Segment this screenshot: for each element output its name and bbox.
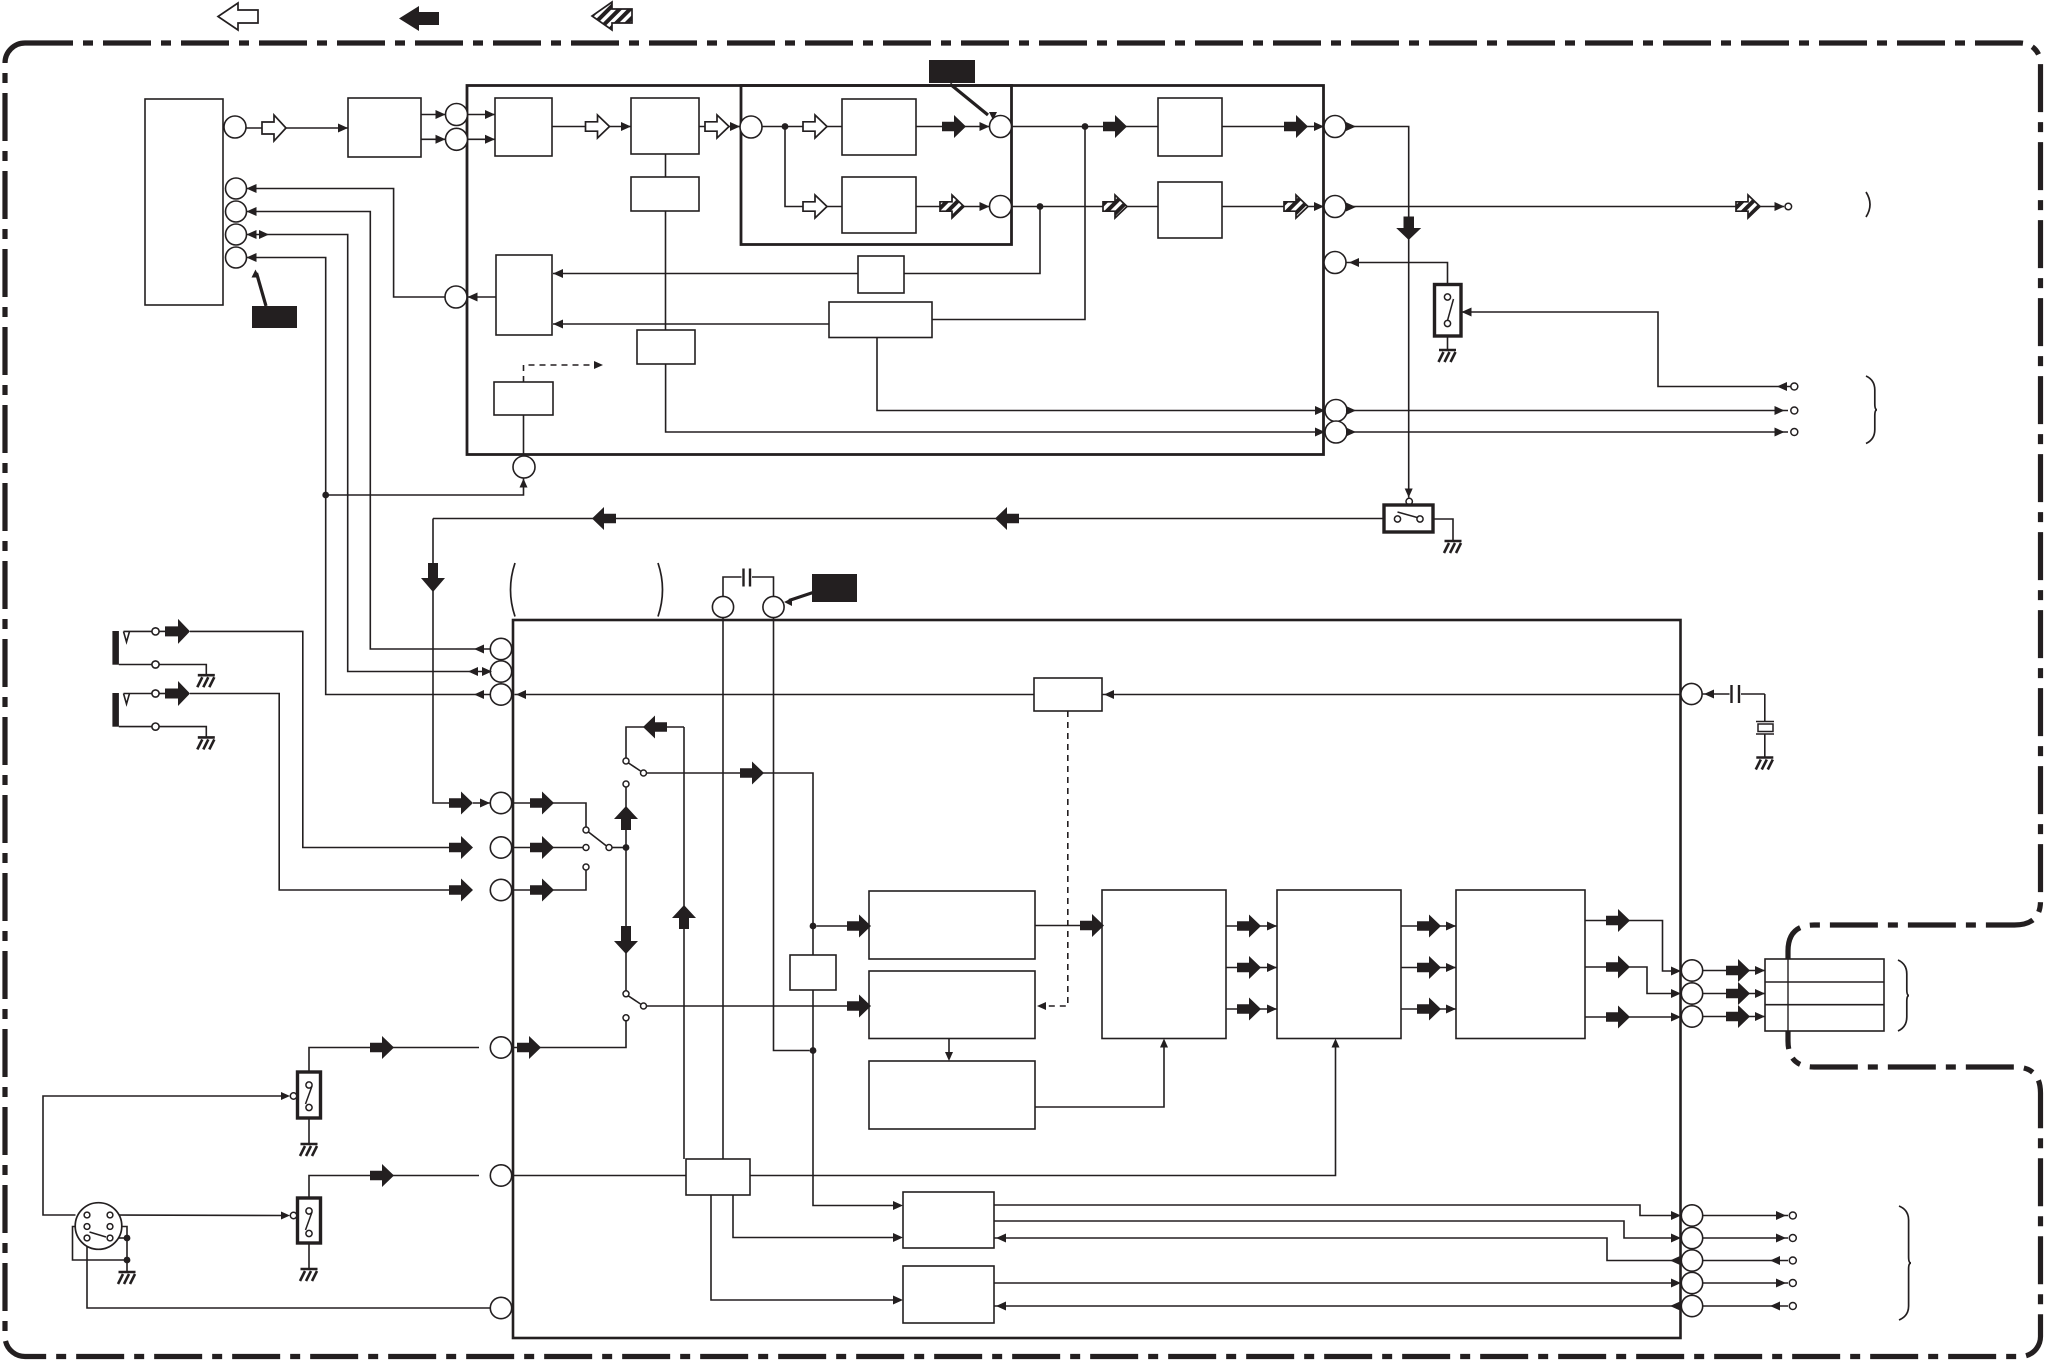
- solid arrow B22-B23 row 1009: [1237, 998, 1261, 1021]
- selector SW-C blade: [629, 763, 641, 771]
- B25 output row1 to Q1 terminal: [994, 1205, 1672, 1216]
- wire node 1040 down to meter driver B9 and monitor amp B11: [553, 207, 1040, 274]
- monitor bus vertical: [625, 787, 627, 991]
- wire B11 output to connector M: [468, 296, 497, 298]
- arrowhead into Q1: [1671, 1211, 1681, 1220]
- DIN blade: [90, 1232, 107, 1237]
- selector SW-E contact e: [583, 864, 589, 870]
- wire E1 into preamp block B2: [468, 114, 496, 116]
- block B2 amp: [495, 98, 552, 156]
- brace at speaker connector: [1898, 960, 1909, 1031]
- arrowhead after H1: [1346, 122, 1356, 131]
- black label NR pointer: [257, 273, 267, 306]
- solid arrow after J2: [530, 836, 554, 859]
- node dot row2 at 1040: [1037, 203, 1044, 210]
- arrowhead into J1: [480, 799, 490, 808]
- node dot row1 at 785: [782, 123, 789, 130]
- selector SW-D blade: [629, 996, 641, 1004]
- arrowhead into G: [980, 202, 990, 211]
- connector circle K1: [712, 596, 733, 617]
- solid arrow B23-B24 row 967.5: [1417, 956, 1441, 979]
- connector circle B1 row 234: [226, 224, 247, 245]
- wire rec-out branch from node 495 to connector I1: [326, 479, 524, 496]
- bracket at line-out terminal: [1866, 192, 1870, 217]
- SW-G input contact circle: [290, 1212, 296, 1218]
- switch SW-A record mute: [1435, 285, 1462, 337]
- wire B1 circle row 211 to L1: [247, 212, 491, 650]
- arrowhead speaker row1: [1755, 966, 1765, 975]
- B16 output row to B23 bottom: [750, 1044, 1336, 1176]
- speaker connector block 3 rows: [1765, 959, 1884, 1031]
- node dot monitor pole: [623, 844, 630, 851]
- arrowhead into SW-A: [1462, 308, 1472, 317]
- dashed arrowhead into B21a: [1037, 1002, 1046, 1010]
- outline arrow into B5: [803, 115, 827, 138]
- arrowhead on L1 wire: [474, 645, 484, 654]
- connector circle K2: [763, 596, 784, 617]
- arrowhead on T1 wire: [1777, 382, 1787, 391]
- wire B1 circle row 257 to L3: [247, 258, 491, 695]
- arrowhead into H2: [1314, 202, 1324, 211]
- B25 input row from Q3 terminal: [994, 1238, 1681, 1261]
- block B1 system control: [145, 99, 223, 305]
- DIN pin 4: [107, 1224, 113, 1230]
- arrowhead speaker row2: [1755, 989, 1765, 998]
- jack2 sleeve wire to ground: [159, 727, 206, 738]
- monitor feed vertical to B16: [683, 727, 685, 1159]
- block B4 filter: [631, 177, 699, 211]
- jack1 sleeve wire stub: [119, 664, 152, 666]
- big left arrow on muting bus west: [592, 507, 616, 530]
- block B3 amp: [631, 98, 699, 154]
- arrowhead into E2: [436, 135, 446, 144]
- jack2 wire to arrow: [159, 693, 165, 695]
- solid arrow row1 into B7: [1103, 115, 1127, 138]
- dashed arrowhead: [594, 361, 603, 369]
- arrowhead into B26 from B16: [893, 1296, 903, 1305]
- arrowhead into B24 row 926: [1446, 922, 1456, 931]
- arrowhead into E1: [436, 110, 446, 119]
- arrowhead into B2 bottom: [485, 135, 495, 144]
- big down arrow on mute riser: [1396, 217, 1421, 241]
- jack1 sleeve wire to ground: [159, 665, 206, 676]
- connector circle Q5: [1681, 1295, 1702, 1316]
- crystal resonator to ground: [1764, 694, 1766, 722]
- dashed control from B15 to B21a: [1046, 711, 1068, 1006]
- rows B22 to B23: [1226, 925, 1277, 927]
- arrowhead into H3: [1349, 258, 1359, 267]
- arrowhead into F: [980, 122, 990, 131]
- connector circle Q2: [1681, 1227, 1702, 1248]
- SW-C pole wire to record bus: [647, 773, 895, 1206]
- outline arrow into B6: [803, 195, 827, 218]
- solid arrow B24 out row3: [1606, 1006, 1630, 1029]
- jack1 sleeve terminal circle: [152, 661, 159, 668]
- arrowhead after H5: [1346, 428, 1356, 437]
- arrowhead into B15: [1104, 690, 1114, 699]
- connector circle B1 row 188: [226, 178, 247, 199]
- arrowhead up into B23: [1332, 1039, 1340, 1048]
- arrowhead terminal Q2: [1776, 1234, 1786, 1243]
- block B23 motor drive 2: [1277, 890, 1401, 1039]
- big down arrow on monitor bus: [614, 926, 638, 954]
- block B8 output amp 2: [1158, 182, 1222, 238]
- terminal circle T1: [1791, 383, 1798, 390]
- block B24 motor drive 3: [1456, 890, 1585, 1039]
- J1 row inside deck block: [513, 803, 586, 827]
- solid arrow before J1: [449, 792, 473, 815]
- inner sub container O2: [741, 86, 1012, 245]
- solid arrow P2 to speaker: [1726, 982, 1750, 1005]
- connector circle L2: [490, 661, 511, 682]
- jack2 tip terminal circle: [152, 690, 159, 697]
- headphone jack 2 body: [112, 693, 119, 727]
- K1 vertical into B16: [722, 618, 724, 1160]
- arrowhead into H5: [1315, 428, 1325, 437]
- node dot DIN pinBR: [124, 1235, 131, 1242]
- solid arrow on SW-C pole wire: [740, 762, 764, 785]
- wire Fin through O2 to B5: [762, 126, 842, 128]
- ground under crystal: [1756, 758, 1774, 770]
- connector circle Q1: [1681, 1205, 1702, 1226]
- node dot K2 join record bus: [810, 1047, 817, 1054]
- block B22 motor drive 1: [1102, 890, 1226, 1039]
- selector SW-D pole contact: [641, 1003, 647, 1009]
- switch SW-B muting relay: [1384, 505, 1433, 532]
- arrowhead into B1 row211: [247, 207, 257, 216]
- DIN pin MR wire to ground node: [113, 1227, 127, 1273]
- SW-F input wire from DIN pin1: [43, 1096, 287, 1215]
- arrowhead inside O3 on playback row: [516, 690, 526, 699]
- selector SW-E blade: [589, 832, 607, 846]
- arrowhead into P1: [1671, 967, 1681, 976]
- wire line-in block to connector E2: [421, 138, 446, 140]
- B24 output row3 to P3: [1585, 1016, 1672, 1018]
- connector circle P1: [1681, 960, 1702, 981]
- DIN pin 2: [107, 1212, 113, 1218]
- connector circle J6: [490, 1165, 511, 1186]
- SW-F input contact circle: [290, 1093, 296, 1099]
- legend hatched arrow (left): [592, 2, 632, 30]
- wire mute switch SW-B to ground leg: [1433, 519, 1453, 541]
- arrowhead up into I1: [520, 479, 528, 488]
- arrowhead line-out: [1775, 202, 1785, 211]
- connector circle F on O2 right: [990, 116, 1012, 138]
- arrowhead into B1 row188: [247, 184, 257, 193]
- connector circle E2: [446, 128, 468, 150]
- block B21b bias osc: [869, 1061, 1035, 1129]
- solid arrow B7 out: [1284, 115, 1308, 138]
- bidirectional arrowheads on L2 wire: [468, 667, 478, 676]
- arrowhead up into B22: [1160, 1039, 1168, 1048]
- connector circle I1 rec out: [513, 456, 535, 478]
- wire B10 to B11 second input: [553, 323, 829, 325]
- connector circle B1 row 257: [226, 247, 247, 268]
- selector SW-E pole contact: [606, 845, 612, 851]
- block B15 bias trap: [1034, 678, 1102, 711]
- B16 output to B26: [711, 1195, 895, 1300]
- black label OSC: [812, 574, 857, 602]
- solid arrow P3 to speaker: [1726, 1005, 1750, 1028]
- P3 to speaker connector: [1703, 1016, 1765, 1018]
- capacitor loop above K1 K2: [723, 577, 742, 597]
- connector circle P2: [1681, 983, 1702, 1004]
- black label REC pointer: [950, 84, 988, 115]
- B26 input row from Q5 terminal: [994, 1305, 1681, 1307]
- arrowhead down B21a to B21b: [945, 1052, 953, 1061]
- solid arrow B22-B23 row 967.5: [1237, 956, 1261, 979]
- block B2a input stage: [348, 98, 421, 157]
- arrowhead into N1: [1704, 690, 1714, 699]
- J3 row inside deck block: [513, 870, 586, 890]
- selector SW-E pole wire to monitor bus: [612, 847, 626, 849]
- black label REC: [929, 60, 975, 83]
- capacitor plates: [742, 569, 744, 587]
- solid arrow before J4: [370, 1036, 394, 1059]
- selector SW-E contact b: [583, 845, 589, 851]
- wire E2 into preamp block B2: [468, 138, 496, 140]
- arrowhead into B3: [621, 122, 631, 131]
- outline arrow B2 to B3: [586, 115, 610, 138]
- dashed control line from B13: [524, 365, 596, 382]
- solid arrow P1 to speaker: [1726, 959, 1750, 982]
- arrowhead into Q2: [1671, 1234, 1681, 1243]
- jack1 tip terminal circle: [152, 628, 159, 635]
- black label NR: [252, 306, 297, 328]
- solid arrow after J4: [517, 1036, 541, 1059]
- arrowhead into H4: [1315, 406, 1325, 415]
- DIN pin ML loop to ground node: [73, 1227, 125, 1261]
- long muting bus wire: [433, 518, 1384, 520]
- arrowhead into connector M: [468, 293, 478, 302]
- brace at rear terminals: [1866, 376, 1877, 444]
- solid arrow B5 out: [942, 115, 966, 138]
- connector circle H5: [1325, 421, 1347, 443]
- block B25 control interface: [903, 1192, 994, 1248]
- connector circle J3: [490, 879, 511, 900]
- P2 to speaker connector: [1703, 993, 1765, 995]
- jack1 tip contact: [124, 632, 130, 643]
- connector circle L3: [490, 684, 511, 705]
- arrowhead into H1: [1314, 122, 1324, 131]
- SW-B top contact circle: [1406, 498, 1412, 504]
- connector circle P3: [1681, 1006, 1702, 1027]
- selector SW-C upper contact: [623, 758, 629, 764]
- headphone jack 1 body: [112, 631, 119, 665]
- connector circle H2: [1324, 196, 1346, 218]
- node dot DIN ground: [124, 1257, 131, 1264]
- headphone jack2 wire to J3: [190, 694, 449, 891]
- node dot rec-out branch: [322, 492, 329, 499]
- P1 to speaker connector: [1703, 970, 1765, 972]
- connector circle H3: [1324, 252, 1346, 274]
- selector SW-C lower contact: [623, 781, 629, 787]
- wire F to H1 through B7: [1012, 126, 1325, 128]
- solid arrow B22-B23 row 926: [1237, 915, 1261, 938]
- terminal circle T3: [1791, 429, 1798, 436]
- connector circle on B1 top: [224, 116, 246, 138]
- big up arrow on monitor bus: [614, 806, 638, 830]
- SW-D pole wire into B21a: [647, 1005, 861, 1007]
- B26 output row to Q4 terminal: [994, 1282, 1672, 1284]
- outline arrow B3 to Fin: [705, 115, 729, 138]
- terminal circle Q4: [1789, 1280, 1796, 1287]
- block B26 servo interface: [903, 1266, 994, 1323]
- arrowhead into SW-F: [281, 1092, 290, 1100]
- arrowhead into P3: [1671, 1013, 1681, 1022]
- arrowhead terminal Q5: [1770, 1302, 1780, 1311]
- arrowhead into B24 row 1009: [1446, 1005, 1456, 1014]
- selector SW-D upper contact: [623, 991, 629, 997]
- SW-D lower contact riser to J4 row: [513, 1021, 626, 1048]
- wire G to H2 through B8: [1012, 206, 1325, 208]
- connector circle J2: [490, 837, 511, 858]
- record bus junction to B20: [817, 925, 848, 927]
- arrowhead into B23 row 926: [1267, 922, 1277, 931]
- wire playback line into L3 row to EQ block B15: [515, 694, 1035, 696]
- jack2 tip contact: [124, 694, 130, 705]
- monitor bus riser above SW-C: [626, 727, 684, 758]
- solid arrow into B20: [847, 915, 871, 938]
- solid arrow headphone jack2: [165, 681, 190, 706]
- black label OSC pointer: [789, 593, 813, 601]
- B25 output row2 to Q2 terminal: [994, 1221, 1672, 1238]
- oscillator capacitor wire: [1702, 693, 1730, 695]
- line-out terminal circle: [1785, 203, 1792, 210]
- arrowhead into Fin: [730, 122, 740, 131]
- arrowhead into B2 top: [485, 110, 495, 119]
- solid arrow headphone jack1: [165, 619, 190, 644]
- terminal circle Q1: [1789, 1212, 1796, 1219]
- J2 row inside deck block: [513, 847, 583, 849]
- SW-A ground leg: [1447, 336, 1449, 350]
- J1 row into selector: [473, 802, 490, 804]
- wire H3 to record mute switch: [1347, 263, 1448, 285]
- arrowhead into B11 input2: [553, 320, 563, 329]
- wire B12 bottom to connector H5 and terminal T3: [666, 364, 1325, 432]
- block B7 output amp: [1158, 98, 1222, 156]
- wire B4 down to B12: [665, 211, 667, 330]
- SW-G riser to J6: [309, 1176, 479, 1199]
- wire B13 to connector I1: [523, 415, 525, 456]
- arrowhead terminal Q3: [1770, 1256, 1780, 1265]
- big opening paren: [511, 563, 516, 617]
- ground under SW-B: [1444, 541, 1462, 553]
- connector circle H1: [1324, 116, 1346, 138]
- connector circle J1: [490, 792, 511, 813]
- arrowhead speaker row3: [1755, 1012, 1765, 1021]
- ground for DIN shield: [118, 1272, 136, 1284]
- block B12 buffer: [637, 330, 695, 364]
- block B21a bias amp: [869, 971, 1035, 1039]
- arrowhead into B24 row 967.5: [1446, 963, 1456, 972]
- connector circle E1: [446, 104, 468, 126]
- wire B5 to connector F: [916, 126, 990, 128]
- arrowhead into Q4: [1671, 1279, 1681, 1288]
- block B17 record level on bus: [790, 955, 836, 990]
- legend solid arrow (left): [399, 6, 439, 31]
- B24 output row1 to P1: [1585, 921, 1672, 972]
- block B11 monitor amp: [496, 255, 552, 335]
- arrowhead from Q3: [1670, 1256, 1680, 1265]
- DIN remote connector body: [75, 1203, 122, 1250]
- solid arrow B23-B24 row 926: [1417, 915, 1441, 938]
- connector circle M: [445, 286, 467, 308]
- B21a to B21b link: [948, 1039, 950, 1057]
- solid arrow B24 out row2: [1606, 956, 1630, 979]
- big left arrow on muting bus east: [995, 507, 1019, 530]
- connector circle J4: [490, 1037, 511, 1058]
- arrowhead into B26 from Q5: [996, 1302, 1006, 1311]
- connector circle H4: [1325, 400, 1347, 422]
- wire B10 bottom to meter connector H4 and terminal T2: [877, 338, 1325, 411]
- jack1 wire to arrow: [159, 630, 165, 632]
- big down arrow on muting riser: [421, 563, 445, 592]
- external wire SW-F to J4: [309, 1048, 479, 1073]
- selector SW-D lower contact: [623, 1015, 629, 1021]
- connector circle Fin on O2 left: [740, 116, 762, 138]
- B21b output to B22 bottom: [1035, 1044, 1164, 1107]
- ground under SW-G: [300, 1269, 318, 1281]
- arrowhead from Q5: [1670, 1302, 1680, 1311]
- hatched arrow row2 into B8: [1103, 195, 1127, 218]
- arrowhead into B23 row 1009: [1267, 1005, 1277, 1014]
- outline arrow B1 to line-in: [262, 115, 286, 141]
- wire remote terminal T1 to switch SW-A: [1462, 312, 1791, 387]
- arrowhead into B25 record input: [893, 1201, 903, 1210]
- arrowhead to T3: [1775, 428, 1785, 437]
- solid arrow before J3: [449, 879, 473, 902]
- wire M to B1 record circle: [247, 189, 446, 298]
- solid arrow B20 to B22: [1080, 914, 1104, 937]
- block B6 eq amp: [842, 177, 916, 233]
- arrowhead on L3 wire: [474, 690, 484, 699]
- terminal circle Q5: [1789, 1303, 1796, 1310]
- wire H2 to line-out terminal: [1346, 206, 1784, 208]
- jack2 sleeve wire stub: [119, 726, 152, 728]
- arrowhead into B25 from B16: [893, 1233, 903, 1242]
- solid arrow after J1: [530, 792, 554, 815]
- wire line-in block to connector E1: [421, 114, 446, 116]
- brace at bottom terminals: [1899, 1206, 1911, 1320]
- wire B3 to B4 link: [665, 154, 667, 177]
- wire node 1085 down into B10: [932, 127, 1085, 320]
- connector circle Q3: [1681, 1250, 1702, 1271]
- wire B6 to connector G: [916, 206, 990, 208]
- wire B1 top circle to line-in block: [246, 127, 348, 129]
- selector SW-E contact a: [583, 827, 589, 833]
- SW-F ground leg: [308, 1118, 310, 1144]
- connector circle B1 row 211: [226, 201, 247, 222]
- solid arrow before J6: [370, 1164, 394, 1187]
- arrowhead into B23 row 967.5: [1267, 963, 1277, 972]
- wire branch from node at 785 down to row2: [785, 127, 842, 207]
- solid arrow before J2: [449, 836, 473, 859]
- wire B3 to connector Fin: [699, 126, 740, 128]
- jack2 tip wire: [124, 693, 152, 695]
- block B5 rec amp: [842, 99, 916, 155]
- J6 row into B16: [513, 1175, 686, 1177]
- wire B1 circle row 234 to L2 (bidirectional): [247, 235, 491, 672]
- connector circle L1: [490, 638, 511, 659]
- wire H1 to mute switch riser: [1346, 127, 1409, 498]
- hatched arrow B6 out: [940, 195, 964, 218]
- arrowhead into P2: [1671, 989, 1681, 998]
- wire B2 to B3: [552, 126, 631, 128]
- connector circle Q4: [1681, 1272, 1702, 1293]
- arrowhead to T2: [1775, 406, 1785, 415]
- connector circle N1 oscillator: [1681, 683, 1702, 704]
